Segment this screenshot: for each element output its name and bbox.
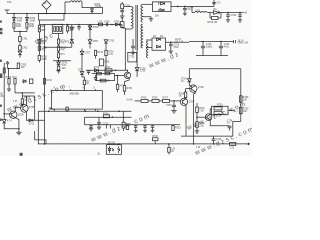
wire Q708 collector resistor (179, 89, 187, 99)
node (19, 31, 21, 33)
IC701 pin labels (54, 88, 96, 90)
transistor Q709 (190, 85, 205, 92)
wire Q710 collector loop (210, 109, 211, 115)
svg-text:C707: C707 (85, 52, 91, 54)
capacitor C722 (151, 125, 155, 133)
capacitor C718 (169, 42, 180, 53)
IC701 top pins (56, 89, 96, 90)
diode D713 (29, 119, 35, 126)
transformer T701 secondary mid (141, 24, 143, 48)
capacitor C723 (166, 101, 177, 113)
svg-text:C702: C702 (22, 48, 28, 50)
svg-text:+B: +B (244, 11, 248, 15)
svg-text:1K: 1K (107, 81, 110, 83)
transistor Q710 (205, 114, 219, 121)
wire (84, 117, 86, 125)
resistor R719 (6, 77, 18, 84)
resistor R710 (121, 18, 124, 27)
wire bus row3 (85, 124, 180, 126)
node (48, 110, 120, 112)
wire (228, 110, 233, 112)
svg-text:R723: R723 (175, 127, 181, 129)
svg-text:Q706: Q706 (18, 115, 24, 117)
small component (3, 68, 5, 73)
line filter box (39, 14, 65, 21)
svg-text:1/2W: 1/2W (29, 26, 35, 28)
wire emitter to diode (26, 111, 44, 120)
node (170, 42, 172, 44)
wire busB (40, 24, 122, 26)
svg-text:R713: R713 (97, 52, 103, 54)
transistor Q706 (10, 111, 25, 118)
node (115, 70, 117, 72)
capacitor C7A (6, 61, 9, 69)
svg-text:D704: D704 (93, 27, 99, 29)
wire L path (35, 131, 46, 144)
wire (170, 100, 181, 102)
wire bus ic1 (38, 110, 131, 112)
svg-text:16V: 16V (155, 15, 160, 17)
resistor R729 (240, 96, 250, 103)
diode D7D up (65, 32, 74, 47)
arrow out (246, 143, 250, 145)
resistor R717 (105, 67, 112, 72)
wire collector (22, 96, 34, 105)
svg-text:GND 2.3A: GND 2.3A (238, 42, 249, 45)
svg-text:10K: 10K (243, 111, 248, 113)
resistor R720 (123, 78, 133, 95)
wire (4, 123, 19, 129)
box ZD704 (99, 59, 110, 66)
transistor Q707 (124, 70, 130, 79)
resistor R709 (66, 25, 75, 34)
diode D705 (114, 22, 120, 26)
resistor R712 (57, 44, 66, 52)
node (18, 128, 20, 130)
svg-text:1 M: 1 M (13, 101, 17, 103)
aux rectifier column (131, 39, 135, 55)
resistor R736 (152, 136, 158, 144)
wire left mid column (44, 25, 46, 145)
svg-text:Q705: Q705 (29, 107, 35, 109)
resistor R731 (196, 103, 206, 122)
svg-text:C710: C710 (140, 71, 146, 73)
resistor R7N (66, 107, 68, 111)
svg-text:(0 IN): (0 IN) (127, 100, 133, 102)
zener ZD702 (57, 62, 68, 67)
rail label (175, 39, 184, 43)
vline top edge (212, 0, 221, 6)
bridge rectifier D4 (42, 1, 51, 14)
svg-text:0.22: 0.22 (230, 147, 235, 149)
capacitor C721 (143, 125, 147, 133)
node (196, 116, 198, 118)
ground (16, 132, 21, 135)
wire cross (45, 46, 72, 48)
inductor L702 (98, 22, 104, 26)
capacitor C7Q (38, 46, 47, 52)
svg-text:D71: D71 (78, 70, 83, 72)
ground (56, 70, 60, 73)
zener D7R (104, 40, 115, 51)
ground bus (196, 55, 228, 57)
resistor R701 (38, 20, 46, 28)
diode D703 (70, 25, 73, 33)
svg-text:1K: 1K (171, 151, 174, 153)
svg-text:C72: C72 (217, 2, 222, 4)
driver chain label (127, 100, 133, 102)
resistor R737 (230, 142, 236, 149)
busC end terminal (234, 40, 249, 45)
zener ZD705 (2, 120, 12, 124)
svg-text:Z701: Z701 (104, 62, 110, 64)
wire (37, 111, 39, 144)
diode D4 out (214, 9, 220, 14)
svg-text:47K: 47K (60, 50, 65, 52)
wire top right rail (191, 6, 193, 12)
resistor R7B (17, 63, 27, 69)
svg-text:C709: C709 (231, 15, 237, 17)
transformer T701 secondary top (141, 4, 143, 22)
svg-text:4R7: 4R7 (41, 26, 46, 28)
svg-text:D713: D713 (29, 124, 35, 126)
svg-text:5.6V: 5.6V (62, 65, 67, 67)
svg-text:R724: R724 (46, 80, 52, 82)
node (202, 41, 222, 43)
wire Q706 base (4, 113, 12, 115)
resistor R708 (26, 20, 35, 31)
diode D711 (94, 67, 100, 72)
wire rail (192, 12, 244, 14)
capacitor C720 (134, 125, 138, 133)
capacitor C713 (201, 42, 213, 56)
svg-text:2.5K: 2.5K (199, 125, 204, 127)
bypass loop R705 (208, 13, 222, 24)
wire Q710 base (197, 116, 207, 118)
degauss coil loop (65, 1, 103, 14)
wire (159, 100, 163, 102)
svg-text:TH701: TH701 (95, 6, 103, 8)
resistor R723 (172, 125, 181, 131)
connector block (52, 24, 63, 33)
node (177, 6, 186, 8)
svg-text:4.7V: 4.7V (7, 121, 12, 123)
capacitor C702 (19, 46, 28, 51)
capacitor C7F (87, 70, 90, 75)
resistor R726 (152, 97, 159, 102)
svg-text:C708: C708 (109, 41, 115, 43)
node (112, 116, 114, 118)
wire arrow (135, 100, 142, 102)
wire secondary top out (143, 3, 153, 5)
svg-text:R720: R720 (127, 88, 133, 90)
diode D710 (135, 50, 146, 77)
rectifier loop2 D4 (152, 36, 166, 50)
wire to Q707 (115, 75, 125, 77)
diode D709 (26, 14, 36, 23)
capacitor C708 (183, 6, 194, 15)
svg-text:AB 2.3A: AB 2.3A (175, 41, 184, 44)
watermark (5, 31, 256, 157)
resistor R7G (82, 75, 90, 91)
wire mid rail (166, 41, 190, 43)
wire divider column (38, 33, 40, 55)
ground (120, 16, 125, 18)
resistor R714 (57, 65, 66, 70)
svg-text:100K: 100K (41, 59, 47, 61)
capacitor C707 (120, 9, 124, 16)
capacitor C709 (226, 13, 237, 23)
capacitor C701 (19, 32, 28, 46)
svg-text:T701: T701 (129, 57, 135, 59)
resistor R727 (163, 97, 170, 102)
svg-text:PC701: PC701 (108, 142, 116, 144)
diode D715 (78, 55, 84, 75)
wire Q708 emitter (185, 105, 187, 136)
resistor R713 (95, 50, 104, 58)
transformer T701 core (136, 5, 137, 50)
resistor R730 (240, 107, 250, 114)
zener D7E (88, 25, 99, 49)
svg-text:Q710: Q710 (212, 115, 218, 117)
diode D714 (181, 69, 192, 87)
wire (148, 100, 152, 102)
capacitor C719 (126, 125, 128, 130)
capacitor C7P (38, 40, 47, 46)
wire box bottom (181, 135, 233, 137)
node (22, 92, 24, 94)
wire bus ic2 (85, 116, 132, 118)
resistor R738b (168, 144, 176, 155)
node (227, 12, 241, 14)
node (44, 47, 46, 49)
transformer T701 aux winding (146, 41, 148, 58)
resistor R721 (122, 111, 132, 131)
edge text fragment (0, 21, 23, 157)
wire (233, 122, 241, 137)
IC701 bottom pins (55, 109, 96, 111)
capacitor C706 snubber (121, 2, 131, 9)
wire Q709 emitter (194, 92, 196, 144)
svg-text:1/2W: 1/2W (16, 26, 22, 28)
resistor R722 (13, 93, 31, 107)
AC input terminal (5, 10, 10, 14)
zener ZD701 (18, 50, 22, 58)
wire loop2 taps (146, 40, 152, 48)
svg-text:C705: C705 (104, 22, 110, 24)
capacitor cluster (89, 125, 93, 131)
svg-text:10K: 10K (243, 100, 248, 102)
zener D704 (88, 26, 99, 30)
wire lower chain (86, 69, 128, 71)
label edge (0, 94, 4, 98)
svg-text:470u: 470u (174, 47, 180, 49)
wire busA (7, 13, 103, 15)
wire bottom bus (38, 143, 248, 145)
svg-text:R705 1W: R705 1W (208, 22, 218, 24)
wire (124, 62, 126, 70)
wire (14, 84, 16, 93)
capacitor C710 (238, 13, 242, 23)
svg-text:R71: R71 (60, 54, 65, 56)
resistor R713b (57, 51, 65, 62)
optocoupler PC701 (106, 142, 121, 154)
resistor R715 (38, 55, 48, 62)
resistor R711 (57, 34, 66, 45)
wire busC (189, 41, 234, 43)
wire join (14, 31, 27, 33)
ground (7, 84, 11, 91)
svg-text:1K: 1K (179, 96, 182, 98)
wire rail out (171, 5, 214, 7)
svg-text:R733: R733 (217, 105, 223, 107)
svg-text:1N40: 1N40 (30, 20, 36, 22)
resistor R702 (38, 29, 46, 33)
svg-text:C701: C701 (22, 39, 28, 41)
wire base bus (15, 92, 35, 94)
wire right column (240, 69, 242, 122)
transformer T701 primary (124, 7, 133, 63)
wire (8, 69, 19, 79)
diode D708 (13, 14, 23, 23)
parallel resistors R733 R734 (212, 105, 236, 115)
capacitor C703 (77, 25, 80, 31)
resistor R7K (105, 72, 110, 75)
resistor R718 (103, 113, 110, 117)
node busB junctions (67, 24, 113, 26)
jumper J701 (48, 108, 53, 110)
resistor R707 (13, 20, 22, 31)
capacitor C7H (94, 75, 97, 81)
node (3, 113, 5, 115)
primary lower box (128, 52, 137, 62)
diode D712 (22, 80, 26, 83)
wire (53, 60, 71, 62)
svg-text:T04: T04 (7, 1, 12, 4)
svg-text:470u: 470u (224, 46, 230, 48)
mid tap ground (143, 15, 160, 21)
wire to transformer (122, 25, 125, 29)
svg-text:1N40: 1N40 (17, 20, 23, 22)
wire Q709 base (186, 88, 192, 90)
op-amp IC701 (51, 91, 102, 110)
wire left rail (3, 63, 5, 119)
svg-text:C723: C723 (166, 105, 172, 107)
node (173, 100, 175, 102)
svg-text:1000u: 1000u (206, 46, 213, 48)
vline mid (34, 96, 36, 120)
svg-text:Q709: Q709 (198, 87, 204, 89)
svg-text:D711: D711 (94, 67, 100, 69)
capacitor C705 (104, 22, 110, 27)
svg-text:2.7K: 2.7K (108, 54, 113, 56)
svg-text:D707: D707 (93, 41, 99, 43)
wire Q710 emitter (210, 120, 229, 126)
resistor R725 (141, 97, 148, 102)
capacitor C726 (212, 136, 222, 144)
svg-text:D71: D71 (65, 42, 70, 44)
resistor R7J (97, 72, 102, 75)
resistor R716 (105, 50, 115, 70)
zener ZD703 (80, 49, 91, 55)
wire top rail right (189, 68, 241, 70)
node (8, 68, 10, 70)
parallel loop R7L (96, 74, 114, 83)
capacitor C715 (97, 117, 109, 129)
svg-text:M51996: M51996 (70, 92, 80, 96)
svg-text:C726: C726 (216, 139, 222, 141)
svg-text:7.5K: 7.5K (199, 111, 204, 113)
capacitor C717 (30, 79, 33, 84)
capacitor C724 (227, 120, 233, 130)
resistor R724 (43, 79, 52, 85)
node busA junctions (13, 13, 66, 15)
svg-text:Q708: Q708 (189, 102, 195, 104)
capacitor C714 (219, 42, 230, 56)
diode D702 (91, 4, 103, 14)
wire Q706 collector (15, 107, 20, 111)
rectifier loop D706 (152, 2, 171, 12)
node (58, 60, 60, 62)
transistor Q708 (180, 98, 195, 105)
node bottom bus (44, 143, 215, 145)
wire upper network (92, 73, 115, 75)
wire Q706 emitter (15, 118, 19, 132)
transistor Q705 (21, 105, 36, 113)
resistor R732 (195, 122, 206, 133)
resistor R7M (116, 76, 124, 93)
svg-text:4R7: 4R7 (41, 30, 46, 32)
node (117, 75, 119, 77)
inductor L703 (195, 11, 208, 13)
wire stub (107, 125, 111, 129)
